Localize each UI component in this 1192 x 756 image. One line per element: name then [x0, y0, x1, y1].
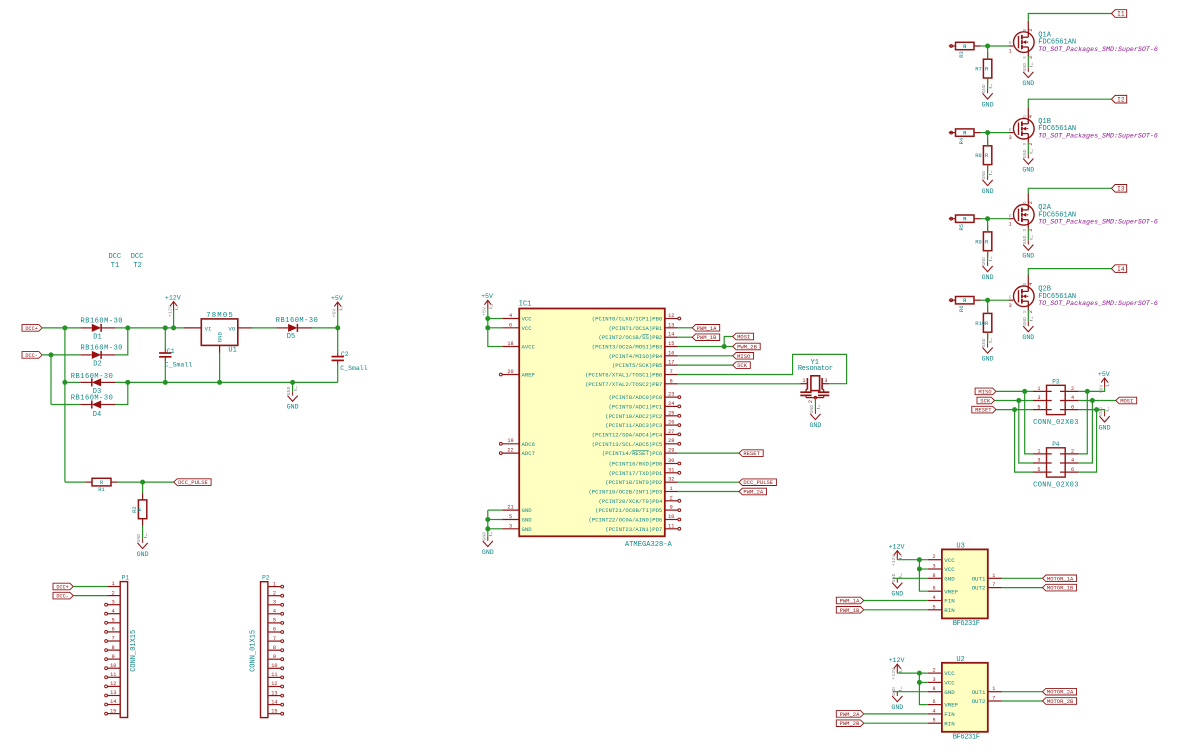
- svg-text:7: 7: [670, 369, 673, 375]
- svg-text:D4: D4: [93, 411, 101, 419]
- svg-text:30: 30: [668, 458, 674, 464]
- svg-text:4: 4: [932, 595, 935, 601]
- svg-text:1: 1: [1009, 49, 1012, 55]
- svg-text:(PCINT0/CLKO/ICP1)PB0: (PCINT0/CLKO/ICP1)PB0: [592, 316, 663, 323]
- svg-text:1: 1: [992, 686, 995, 692]
- svg-text:T1: T1: [111, 262, 119, 270]
- svg-text:6: 6: [112, 627, 115, 633]
- svg-text:(PCINT12/SDA/ADC4)PC4: (PCINT12/SDA/ADC4)PC4: [592, 431, 663, 438]
- svg-text:GND: GND: [982, 101, 994, 108]
- svg-text:AVCC: AVCC: [522, 344, 536, 351]
- svg-text:GND: GND: [944, 575, 955, 582]
- svg-text:9: 9: [670, 505, 673, 511]
- svg-text:GND: GND: [944, 689, 955, 696]
- svg-text:I2: I2: [1117, 96, 1125, 103]
- svg-text:13: 13: [271, 690, 277, 696]
- svg-text:8: 8: [273, 645, 276, 651]
- svg-text:(PCINT16/RXD)PD0: (PCINT16/RXD)PD0: [609, 461, 663, 468]
- svg-text:GND: GND: [1022, 167, 1034, 174]
- svg-text:ATMEGA328-A: ATMEGA328-A: [625, 541, 673, 549]
- svg-text:4: 4: [1071, 395, 1074, 401]
- svg-text:+12V: +12V: [165, 294, 181, 301]
- svg-text:26: 26: [668, 420, 674, 426]
- svg-text:23: 23: [668, 392, 674, 398]
- svg-text:(PCINT9/ADC1)PC1: (PCINT9/ADC1)PC1: [609, 403, 663, 410]
- svg-text:7: 7: [112, 636, 115, 642]
- svg-text:19: 19: [507, 438, 513, 444]
- svg-text:TO_SOT_Packages_SMD:SuperSOT-6: TO_SOT_Packages_SMD:SuperSOT-6: [1038, 133, 1158, 140]
- svg-text:PWM_1B: PWM_1B: [697, 334, 718, 341]
- svg-text:RIN: RIN: [944, 607, 955, 614]
- svg-text:VCC: VCC: [944, 680, 955, 687]
- svg-text:(PCINT2/OC1B/SS)PB2: (PCINT2/OC1B/SS)PB2: [599, 334, 663, 341]
- svg-text:(PCINT4/MISO)PB4: (PCINT4/MISO)PB4: [609, 353, 663, 360]
- svg-text:+12V: +12V: [891, 668, 897, 680]
- svg-text:PWM_2A: PWM_2A: [840, 711, 861, 718]
- svg-text:TO_SOT_Packages_SMD:SuperSOT-6: TO_SOT_Packages_SMD:SuperSOT-6: [1038, 219, 1158, 226]
- svg-text:3: 3: [824, 378, 827, 384]
- svg-text:RB160M-30: RB160M-30: [276, 317, 318, 325]
- svg-text:AREF: AREF: [522, 372, 535, 379]
- svg-text:RESET: RESET: [743, 450, 760, 457]
- svg-text:GND: GND: [1022, 149, 1028, 158]
- svg-text:3: 3: [1028, 56, 1034, 59]
- svg-text:VREF: VREF: [944, 702, 958, 709]
- svg-text:1: 1: [112, 581, 115, 587]
- svg-text:MOSI: MOSI: [1120, 398, 1133, 405]
- svg-text:2: 2: [670, 495, 673, 501]
- svg-text:+5V: +5V: [481, 293, 493, 300]
- svg-text:6: 6: [1071, 404, 1074, 410]
- svg-text:GND: GND: [982, 356, 994, 363]
- svg-text:(PCINT3/OC2A/MOSI)PB3: (PCINT3/OC2A/MOSI)PB3: [592, 344, 663, 351]
- svg-text:22: 22: [507, 448, 513, 454]
- svg-text:5: 5: [273, 618, 276, 624]
- svg-text:+5V: +5V: [332, 309, 338, 318]
- svg-text:PWM_2A: PWM_2A: [743, 489, 764, 496]
- svg-text:G: G: [1009, 128, 1012, 133]
- svg-text:Resonator: Resonator: [798, 365, 833, 373]
- svg-text:RB160M-30: RB160M-30: [81, 317, 123, 325]
- svg-text:3: 3: [1009, 303, 1012, 309]
- svg-text:PWM_1B: PWM_1B: [840, 607, 861, 614]
- svg-text:(PCINT18/INT0)PD2: (PCINT18/INT0)PD2: [605, 479, 662, 486]
- svg-text:(PCINT5/SCK)PB5: (PCINT5/SCK)PB5: [612, 362, 662, 369]
- svg-text:R6: R6: [958, 305, 965, 312]
- svg-text:GND: GND: [1098, 407, 1104, 416]
- svg-text:R3: R3: [958, 51, 965, 58]
- svg-text:25: 25: [668, 410, 674, 416]
- svg-text:5: 5: [509, 514, 512, 520]
- svg-text:D5: D5: [287, 333, 295, 341]
- svg-text:MOTOR_1A: MOTOR_1A: [1047, 575, 1074, 582]
- svg-text:GND: GND: [1022, 63, 1028, 72]
- svg-text:4: 4: [509, 313, 512, 319]
- svg-text:9: 9: [112, 654, 115, 660]
- svg-text:VREF: VREF: [944, 588, 958, 595]
- svg-text:RESET: RESET: [975, 407, 992, 414]
- svg-text:C1: C1: [167, 348, 175, 355]
- svg-text:R1: R1: [98, 486, 105, 493]
- svg-text:(PCINT19/OC2B/INT1)PD3: (PCINT19/OC2B/INT1)PD3: [588, 489, 662, 496]
- svg-text:R10: R10: [975, 320, 985, 327]
- svg-text:1: 1: [1009, 221, 1012, 227]
- svg-text:3: 3: [112, 599, 115, 605]
- svg-text:DCC-: DCC-: [25, 353, 37, 359]
- svg-text:GND: GND: [981, 84, 987, 93]
- svg-text:1: 1: [670, 486, 673, 492]
- svg-text:U1: U1: [228, 347, 236, 355]
- svg-text:I1: I1: [1117, 11, 1125, 18]
- svg-text:GND: GND: [891, 704, 903, 711]
- svg-text:TO_SOT_Packages_SMD:SuperSOT-6: TO_SOT_Packages_SMD:SuperSOT-6: [1038, 46, 1158, 53]
- svg-text:6: 6: [932, 586, 935, 592]
- svg-text:4: 4: [273, 609, 276, 615]
- svg-text:1: 1: [992, 573, 995, 579]
- svg-text:14: 14: [668, 332, 674, 338]
- svg-text:GND: GND: [982, 274, 994, 281]
- svg-text:2: 2: [1028, 310, 1034, 313]
- svg-text:2: 2: [1028, 201, 1034, 204]
- svg-text:3: 3: [509, 523, 512, 529]
- svg-text:MOTOR_2B: MOTOR_2B: [1047, 698, 1074, 705]
- svg-text:+12V: +12V: [889, 544, 905, 551]
- svg-text:MISO: MISO: [737, 353, 751, 360]
- svg-text:ADC6: ADC6: [522, 441, 535, 448]
- svg-text:G: G: [1009, 41, 1012, 46]
- svg-text:SCK: SCK: [737, 362, 748, 369]
- svg-text:IC1: IC1: [519, 301, 532, 309]
- svg-text:(PCINT20/XCK/T0)PD4: (PCINT20/XCK/T0)PD4: [599, 498, 663, 505]
- svg-text:RB160M-30: RB160M-30: [71, 394, 113, 402]
- svg-text:2: 2: [1071, 449, 1074, 455]
- svg-text:DCC+: DCC+: [56, 584, 68, 590]
- svg-text:SCK: SCK: [980, 398, 991, 405]
- svg-text:GND: GND: [1022, 80, 1034, 87]
- svg-text:+5V: +5V: [1098, 385, 1104, 394]
- svg-text:11: 11: [271, 672, 277, 678]
- svg-text:4: 4: [112, 608, 115, 614]
- svg-text:MISO: MISO: [978, 388, 992, 395]
- svg-text:3: 3: [932, 677, 935, 683]
- svg-text:2: 2: [112, 590, 115, 596]
- svg-text:11: 11: [110, 672, 116, 678]
- svg-text:13: 13: [110, 690, 116, 696]
- svg-text:(PCINT6/XTAL1/TOSC1)PB6: (PCINT6/XTAL1/TOSC1)PB6: [585, 372, 662, 379]
- svg-text:GND: GND: [891, 573, 897, 582]
- svg-text:GND: GND: [982, 188, 994, 195]
- svg-text:8: 8: [932, 573, 935, 579]
- svg-text:+5V: +5V: [331, 295, 343, 302]
- svg-text:BF6231F: BF6231F: [953, 734, 980, 742]
- svg-text:FIN: FIN: [944, 711, 955, 718]
- svg-text:32: 32: [668, 477, 674, 483]
- svg-text:GND: GND: [981, 257, 987, 266]
- svg-text:GND: GND: [809, 422, 821, 429]
- svg-text:R4: R4: [958, 137, 965, 144]
- svg-text:5: 5: [932, 604, 935, 610]
- svg-text:G: G: [1009, 214, 1012, 219]
- svg-text:PWM_2B: PWM_2B: [737, 344, 758, 351]
- svg-text:5: 5: [932, 718, 935, 724]
- svg-text:4: 4: [1071, 458, 1074, 464]
- svg-text:PWM_1A: PWM_1A: [697, 325, 718, 332]
- svg-text:MOSI: MOSI: [737, 334, 750, 341]
- svg-text:RIN: RIN: [944, 720, 955, 727]
- svg-text:13: 13: [668, 322, 674, 328]
- svg-text:DCC_PULSE: DCC_PULSE: [178, 479, 208, 486]
- svg-text:4: 4: [1028, 115, 1034, 118]
- svg-text:GND: GND: [1022, 334, 1034, 341]
- svg-text:2: 2: [808, 400, 814, 403]
- svg-text:15: 15: [110, 708, 116, 714]
- svg-text:VCC: VCC: [944, 566, 955, 573]
- svg-text:5: 5: [1037, 404, 1040, 410]
- svg-text:6: 6: [509, 322, 512, 328]
- svg-text:GND: GND: [522, 526, 533, 533]
- svg-text:GND: GND: [137, 551, 149, 558]
- svg-text:R5: R5: [958, 224, 965, 231]
- svg-text:DCC: DCC: [131, 253, 144, 261]
- svg-text:3: 3: [1037, 458, 1040, 464]
- svg-text:3: 3: [273, 600, 276, 606]
- svg-text:3: 3: [1037, 395, 1040, 401]
- svg-text:RB160M-30: RB160M-30: [81, 345, 123, 353]
- svg-text:GND: GND: [1022, 235, 1028, 244]
- svg-text:CONN_02X03: CONN_02X03: [1033, 419, 1078, 427]
- svg-text:(PCINT11/ADC3)PC3: (PCINT11/ADC3)PC3: [605, 422, 662, 429]
- svg-text:R8: R8: [975, 152, 982, 159]
- svg-text:7: 7: [992, 696, 995, 702]
- svg-text:+12V: +12V: [889, 657, 905, 664]
- svg-text:18: 18: [507, 341, 513, 347]
- svg-text:CONN_02X03: CONN_02X03: [1033, 481, 1078, 489]
- svg-text:U2: U2: [956, 656, 964, 664]
- svg-text:R9: R9: [975, 238, 982, 245]
- svg-text:GND: GND: [482, 549, 494, 556]
- svg-text:1: 1: [1037, 386, 1040, 392]
- svg-text:2: 2: [1028, 28, 1034, 31]
- svg-text:31: 31: [668, 467, 674, 473]
- svg-text:GND: GND: [981, 171, 987, 180]
- svg-text:C2: C2: [341, 351, 349, 358]
- svg-text:P4: P4: [1052, 441, 1060, 448]
- svg-text:+12V: +12V: [891, 554, 897, 566]
- svg-text:8: 8: [670, 378, 673, 384]
- svg-text:3: 3: [1009, 135, 1012, 141]
- svg-text:VI: VI: [205, 325, 212, 332]
- svg-text:9: 9: [273, 654, 276, 660]
- svg-text:OUT2: OUT2: [972, 585, 986, 592]
- svg-text:(PCINT21/OC0B/T1)PD5: (PCINT21/OC0B/T1)PD5: [595, 507, 662, 514]
- svg-text:FIN: FIN: [944, 598, 955, 605]
- svg-text:11: 11: [668, 523, 674, 529]
- svg-text:OUT1: OUT1: [972, 575, 986, 582]
- svg-text:5: 5: [1037, 467, 1040, 473]
- svg-text:GND: GND: [981, 338, 987, 347]
- svg-text:TO_SOT_Packages_SMD:SuperSOT-6: TO_SOT_Packages_SMD:SuperSOT-6: [1038, 300, 1158, 307]
- svg-text:GND: GND: [481, 532, 487, 541]
- svg-text:4: 4: [1028, 283, 1034, 286]
- svg-text:1: 1: [1037, 449, 1040, 455]
- svg-text:29: 29: [668, 448, 674, 454]
- svg-text:VCC: VCC: [522, 325, 533, 332]
- svg-text:P3: P3: [1052, 379, 1060, 386]
- svg-text:(PCINT10/ADC2)PC2: (PCINT10/ADC2)PC2: [605, 413, 662, 420]
- svg-text:6: 6: [932, 699, 935, 705]
- svg-text:PWM_2B: PWM_2B: [840, 720, 861, 727]
- svg-text:8: 8: [932, 686, 935, 692]
- svg-text:GND: GND: [809, 405, 815, 414]
- svg-text:14: 14: [271, 699, 277, 705]
- svg-text:GND: GND: [891, 591, 903, 598]
- svg-text:10: 10: [668, 514, 674, 520]
- svg-text:RB160M-30: RB160M-30: [71, 373, 113, 381]
- svg-text:DCC+: DCC+: [25, 326, 37, 332]
- svg-text:2: 2: [932, 668, 935, 674]
- svg-text:CONN_01X15: CONN_01X15: [130, 630, 138, 672]
- svg-text:8: 8: [112, 645, 115, 651]
- svg-text:ADC7: ADC7: [522, 450, 535, 457]
- svg-text:15: 15: [668, 341, 674, 347]
- svg-text:10: 10: [110, 663, 116, 669]
- svg-text:12: 12: [668, 313, 674, 319]
- svg-text:MOTOR_1B: MOTOR_1B: [1047, 585, 1074, 592]
- svg-text:GND: GND: [136, 534, 142, 543]
- svg-text:6: 6: [273, 627, 276, 633]
- svg-text:21: 21: [507, 505, 513, 511]
- svg-text:VCC: VCC: [944, 557, 955, 564]
- svg-text:G: G: [1009, 295, 1012, 300]
- svg-text:OUT2: OUT2: [972, 698, 986, 705]
- svg-text:14: 14: [110, 699, 116, 705]
- svg-text:I3: I3: [1117, 186, 1125, 193]
- svg-text:BF6231F: BF6231F: [953, 620, 980, 628]
- svg-text:D2: D2: [93, 361, 101, 369]
- svg-text:P2: P2: [262, 575, 270, 582]
- svg-text:(PCINT14/RESET)PC6: (PCINT14/RESET)PC6: [602, 450, 662, 457]
- svg-text:28: 28: [668, 438, 674, 444]
- svg-text:(PCINT17/TXD)PD1: (PCINT17/TXD)PD1: [609, 470, 663, 477]
- svg-text:2: 2: [1071, 386, 1074, 392]
- svg-text:C_Small: C_Small: [340, 365, 367, 372]
- svg-text:PWM_1A: PWM_1A: [840, 598, 861, 605]
- svg-text:C_Small: C_Small: [165, 362, 192, 369]
- svg-text:17: 17: [668, 360, 674, 366]
- svg-text:VCC: VCC: [522, 316, 533, 323]
- svg-text:(PCINT1/OC1A)PB1: (PCINT1/OC1A)PB1: [609, 325, 663, 332]
- svg-text:(PCINT8/ADC0)PC0: (PCINT8/ADC0)PC0: [609, 394, 663, 401]
- svg-text:7: 7: [992, 582, 995, 588]
- svg-text:6: 6: [1071, 467, 1074, 473]
- svg-text:U3: U3: [956, 543, 964, 551]
- svg-text:GND: GND: [217, 332, 224, 343]
- svg-text:DCC_PULSE: DCC_PULSE: [743, 479, 773, 486]
- svg-text:2: 2: [1028, 143, 1034, 146]
- svg-text:1: 1: [802, 378, 805, 384]
- svg-text:D1: D1: [93, 334, 101, 342]
- svg-text:GND: GND: [522, 517, 533, 524]
- svg-text:20: 20: [507, 369, 513, 375]
- svg-text:3: 3: [932, 564, 935, 570]
- svg-text:+5V: +5V: [1098, 371, 1110, 378]
- svg-text:DCC: DCC: [108, 253, 121, 261]
- svg-text:1: 1: [273, 581, 276, 587]
- svg-text:5: 5: [112, 618, 115, 624]
- svg-text:VCC: VCC: [944, 670, 955, 677]
- svg-text:(PCINT13/SCL/ADC5)PC5: (PCINT13/SCL/ADC5)PC5: [592, 441, 663, 448]
- svg-text:+5V: +5V: [482, 307, 488, 316]
- svg-text:2: 2: [932, 554, 935, 560]
- svg-text:GND: GND: [1099, 424, 1111, 431]
- svg-text:16: 16: [668, 350, 674, 356]
- svg-text:15: 15: [271, 708, 277, 714]
- svg-text:24: 24: [668, 401, 674, 407]
- svg-text:VO: VO: [228, 325, 235, 332]
- svg-text:T2: T2: [133, 262, 141, 270]
- svg-text:I4: I4: [1117, 266, 1125, 273]
- svg-text:+12V: +12V: [167, 305, 173, 317]
- svg-text:GND: GND: [1022, 317, 1028, 326]
- svg-text:(PCINT7/XTAL2/TOSC2)PB7: (PCINT7/XTAL2/TOSC2)PB7: [585, 381, 662, 388]
- svg-text:OUT1: OUT1: [972, 689, 986, 696]
- svg-text:GND: GND: [522, 507, 533, 514]
- svg-text:10: 10: [271, 663, 277, 669]
- svg-text:P1: P1: [122, 575, 130, 582]
- svg-text:4: 4: [932, 708, 935, 714]
- svg-text:GND: GND: [286, 386, 292, 395]
- svg-text:78M05: 78M05: [206, 312, 233, 320]
- svg-text:CONN_01X15: CONN_01X15: [250, 630, 258, 672]
- svg-text:MOTOR_2A: MOTOR_2A: [1047, 689, 1074, 696]
- svg-text:12: 12: [271, 681, 277, 687]
- svg-text:27: 27: [668, 429, 674, 435]
- svg-text:R7: R7: [975, 66, 982, 73]
- svg-text:12: 12: [110, 681, 116, 687]
- svg-text:3: 3: [1028, 229, 1034, 232]
- svg-text:7: 7: [273, 636, 276, 642]
- svg-text:GND: GND: [1022, 253, 1034, 260]
- svg-text:(PCINT23/AIN1)PD7: (PCINT23/AIN1)PD7: [605, 526, 662, 533]
- svg-text:DCC-: DCC-: [56, 594, 68, 600]
- svg-text:GND: GND: [891, 687, 897, 696]
- svg-text:2: 2: [273, 590, 276, 596]
- svg-text:(PCINT22/OC0A/AIN0)PD6: (PCINT22/OC0A/AIN0)PD6: [588, 517, 662, 524]
- svg-text:GND: GND: [287, 404, 299, 411]
